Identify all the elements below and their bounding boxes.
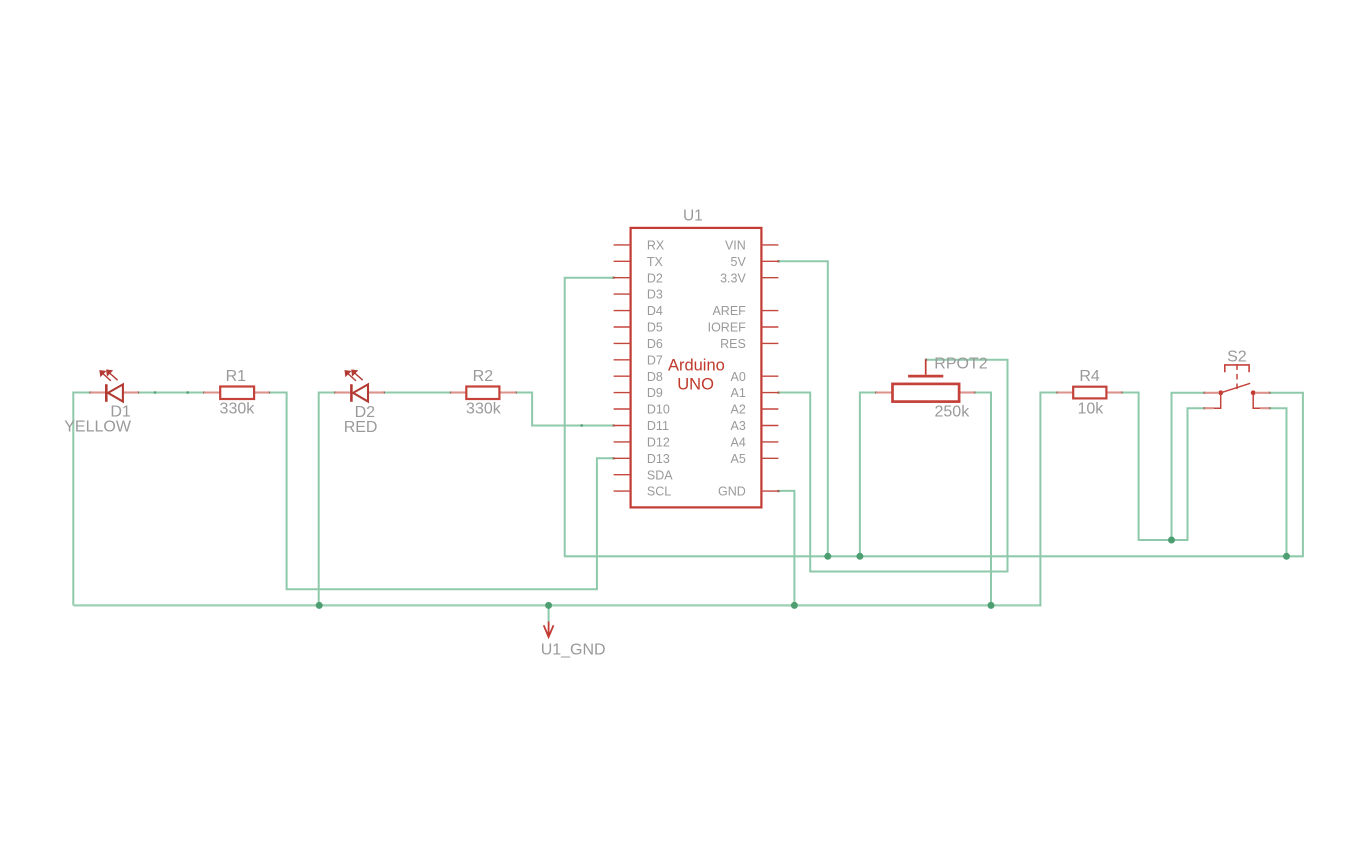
wire R4 right to S2 lower left (1122, 393, 1205, 541)
wire ground symbol stub (548, 605, 550, 622)
integrated circuit U1 Arduino UNO body (631, 228, 762, 508)
pin A3 stub (761, 425, 778, 427)
switch S2 actuator dashed link (1236, 364, 1238, 390)
svg-text:R2: R2 (473, 368, 494, 385)
pin D5 stub (614, 326, 631, 328)
pin TX stub (614, 260, 631, 262)
resistor R1 body (220, 387, 254, 400)
LED D2 lead left (335, 391, 350, 393)
svg-text:Arduino: Arduino (668, 357, 725, 375)
svg-text:D11: D11 (647, 419, 669, 433)
potentiometer RPOT2 lead left (876, 391, 892, 393)
svg-text:D9: D9 (647, 386, 663, 400)
wire R2 right to pin D11 (516, 393, 614, 426)
svg-text:D8: D8 (647, 370, 663, 384)
wire R1 right to pin D13 (269, 393, 614, 590)
junction dot D2 LED on ground rail (316, 602, 323, 609)
LED D1 lead left (90, 391, 105, 393)
junction dot GND pin on ground rail (791, 602, 798, 609)
svg-text:RPOT2: RPOT2 (934, 355, 987, 372)
ground rail (73, 604, 1040, 606)
svg-text:330k: 330k (220, 400, 256, 417)
pin A5 stub (761, 457, 778, 459)
pin 3.3V stub (761, 277, 778, 279)
LED D1 emission arrow 2 (110, 373, 118, 380)
switch S2 upper right lead (1255, 392, 1269, 394)
pin D3 stub (614, 293, 631, 295)
wire S2 lower right to mid net (1269, 408, 1286, 556)
pin VIN stub (761, 244, 778, 246)
resistor R4 body (1073, 387, 1106, 399)
svg-text:A3: A3 (731, 419, 746, 433)
wire GND pin to ground rail (778, 491, 794, 606)
pin D8 stub (614, 375, 631, 377)
junction dot ground symbol on ground rail (545, 602, 552, 609)
wire 5V pin to mid net (778, 261, 827, 556)
wire S2 upper left riser (1172, 393, 1205, 540)
svg-text:SCL: SCL (647, 485, 671, 499)
wire potentiometer right to ground rail (974, 393, 991, 606)
resistor R4 lead right (1106, 391, 1121, 393)
svg-text:IOREF: IOREF (708, 321, 747, 335)
svg-text:D10: D10 (647, 403, 670, 417)
svg-text:VIN: VIN (725, 239, 746, 253)
svg-text:330k: 330k (466, 400, 502, 417)
pin D9 stub (614, 392, 631, 394)
svg-text:3.3V: 3.3V (720, 271, 746, 285)
potentiometer RPOT2 lead right (959, 391, 974, 393)
pin D6 stub (614, 342, 631, 344)
resistor R2 body (466, 387, 499, 400)
pin GND stub (761, 490, 778, 492)
switch S2 actuator bracket (1225, 365, 1249, 372)
svg-text:U1_GND: U1_GND (541, 641, 606, 658)
ground symbol U1_GND arrow (544, 622, 554, 637)
LED D2 triangle (353, 384, 368, 401)
resistor R1 lead left (204, 391, 220, 393)
LED D1 cathode bar (105, 384, 108, 402)
pin RES stub (761, 342, 778, 344)
junction dot S2 left pins (1168, 537, 1175, 544)
wire mid net horizontal run (564, 555, 1303, 557)
resistor R2 lead left (451, 391, 466, 393)
pin A0 stub (761, 375, 778, 377)
resistor R4 lead left (1057, 391, 1073, 393)
svg-text:R1: R1 (226, 368, 247, 385)
svg-text:UNO: UNO (677, 375, 714, 393)
switch S2 upper left lead (1205, 392, 1220, 394)
potentiometer RPOT2 wiper stub (925, 360, 927, 375)
svg-text:TX: TX (647, 255, 664, 269)
svg-text:D6: D6 (647, 337, 663, 351)
svg-text:RED: RED (344, 419, 378, 436)
pin D7 stub (614, 359, 631, 361)
pin D12 stub (614, 441, 631, 443)
svg-text:250k: 250k (935, 404, 971, 421)
junction dot potentiometer right on ground rail (988, 602, 995, 609)
LED D2 cathode bar (350, 384, 353, 402)
pin A4 stub (761, 441, 778, 443)
pin D2 stub (614, 277, 631, 279)
wire ground rail riser to R4 left (1040, 393, 1057, 607)
svg-text:10k: 10k (1078, 400, 1105, 417)
svg-text:RES: RES (720, 337, 746, 351)
svg-text:D4: D4 (647, 304, 663, 318)
LED D1 triangle (108, 384, 123, 401)
switch S2 lower right leg (1253, 394, 1261, 409)
svg-text:D5: D5 (647, 321, 663, 335)
wire pin D2 down to mid net (565, 278, 614, 557)
junction dot 5V on mid net (824, 553, 831, 560)
pin AREF stub (761, 310, 778, 312)
pin A2 stub (761, 408, 778, 410)
LED D1 lead right (124, 391, 139, 393)
svg-text:A1: A1 (731, 386, 746, 400)
wire A1 pin to potentiometer wiper (778, 360, 1007, 572)
potentiometer RPOT2 body (893, 384, 960, 402)
pin D4 stub (614, 310, 631, 312)
svg-text:SDA: SDA (647, 468, 673, 482)
svg-text:RX: RX (647, 239, 665, 253)
LED D2 lead right (369, 391, 384, 393)
resistor R1 lead right (254, 391, 269, 393)
wire joint marks (89, 260, 1270, 492)
switch S2 lever (1221, 383, 1251, 393)
svg-text:S2: S2 (1227, 349, 1247, 366)
wire D1 cathode to ground rail left loop (73, 393, 90, 606)
svg-text:R4: R4 (1079, 368, 1100, 385)
LED D2 emission arrow 2 (355, 373, 363, 380)
switch S2 left contact (1218, 390, 1223, 395)
pin 5V stub (761, 260, 778, 262)
wire mid net riser to S2 upper right (1269, 393, 1303, 558)
pin D10 stub (614, 408, 631, 410)
svg-text:D12: D12 (647, 436, 670, 450)
junction dot S2 lower right on mid net (1283, 553, 1290, 560)
LED D2 emission arrow 1 (348, 374, 356, 381)
switch S2 lower left leg (1213, 394, 1221, 409)
pin SCL stub (614, 490, 631, 492)
svg-text:D7: D7 (647, 353, 663, 367)
wire D1 anode to R1 left (138, 392, 204, 394)
svg-text:A5: A5 (731, 452, 746, 466)
svg-text:A2: A2 (731, 403, 746, 417)
svg-text:AREF: AREF (712, 304, 746, 318)
svg-text:A0: A0 (731, 370, 746, 384)
svg-text:A4: A4 (731, 436, 746, 450)
pin RX stub (614, 244, 631, 246)
resistor R2 lead right (499, 391, 515, 393)
wire D2 cathode to ground rail (319, 393, 336, 606)
svg-text:D13: D13 (647, 452, 670, 466)
pin IOREF stub (761, 326, 778, 328)
svg-text:YELLOW: YELLOW (64, 418, 132, 435)
switch S2 lower right lead (1260, 407, 1269, 409)
svg-text:U1: U1 (683, 208, 703, 225)
pin SDA stub (614, 474, 631, 476)
LED D1 emission arrow 1 (103, 374, 111, 381)
wire potentiometer left to mid net (860, 393, 876, 557)
wire D2 anode to R2 left (384, 392, 451, 394)
svg-text:D2: D2 (647, 271, 663, 285)
svg-text:D3: D3 (647, 288, 663, 302)
pin D13 stub (614, 457, 631, 459)
svg-text:5V: 5V (731, 255, 747, 269)
potentiometer RPOT2 wiper bar (908, 375, 943, 378)
pin A1 stub (761, 392, 778, 394)
switch S2 right contact (1251, 390, 1256, 395)
switch S2 lower left lead (1205, 407, 1214, 409)
pin D11 stub (614, 425, 631, 427)
svg-text:GND: GND (718, 485, 746, 499)
junction dot potentiometer left on mid net (856, 553, 863, 560)
